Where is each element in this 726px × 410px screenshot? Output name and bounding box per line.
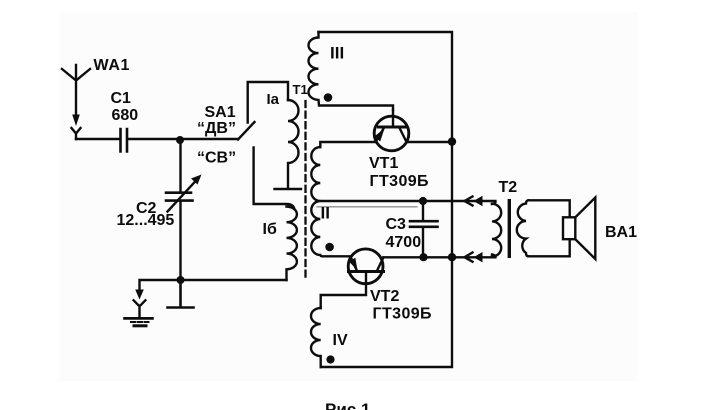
svg-text:Iа: Iа: [267, 91, 280, 108]
svg-text:“СВ”: “СВ”: [197, 150, 236, 167]
svg-text:12...495: 12...495: [117, 212, 175, 229]
svg-text:“ДВ”: “ДВ”: [197, 120, 236, 137]
svg-text:VT1: VT1: [369, 155, 398, 172]
svg-text:IV: IV: [333, 332, 348, 349]
svg-text:II: II: [321, 204, 330, 223]
svg-text:T2: T2: [499, 179, 518, 196]
svg-text:C3: C3: [386, 216, 407, 233]
svg-text:SA1: SA1: [205, 104, 236, 121]
svg-text:C1: C1: [111, 90, 132, 107]
svg-text:4700: 4700: [386, 234, 422, 251]
svg-text:680: 680: [112, 107, 139, 124]
svg-text:Рис.1: Рис.1: [325, 400, 370, 410]
svg-text:ГТ309Б: ГТ309Б: [370, 173, 429, 190]
svg-text:Iб: Iб: [263, 221, 277, 238]
svg-text:BA1: BA1: [605, 224, 637, 241]
svg-text:ГТ309Б: ГТ309Б: [373, 306, 432, 323]
svg-text:T1: T1: [293, 82, 308, 97]
svg-text:WA1: WA1: [94, 57, 130, 74]
svg-text:VT2: VT2: [370, 288, 399, 305]
svg-text:III: III: [330, 44, 344, 63]
